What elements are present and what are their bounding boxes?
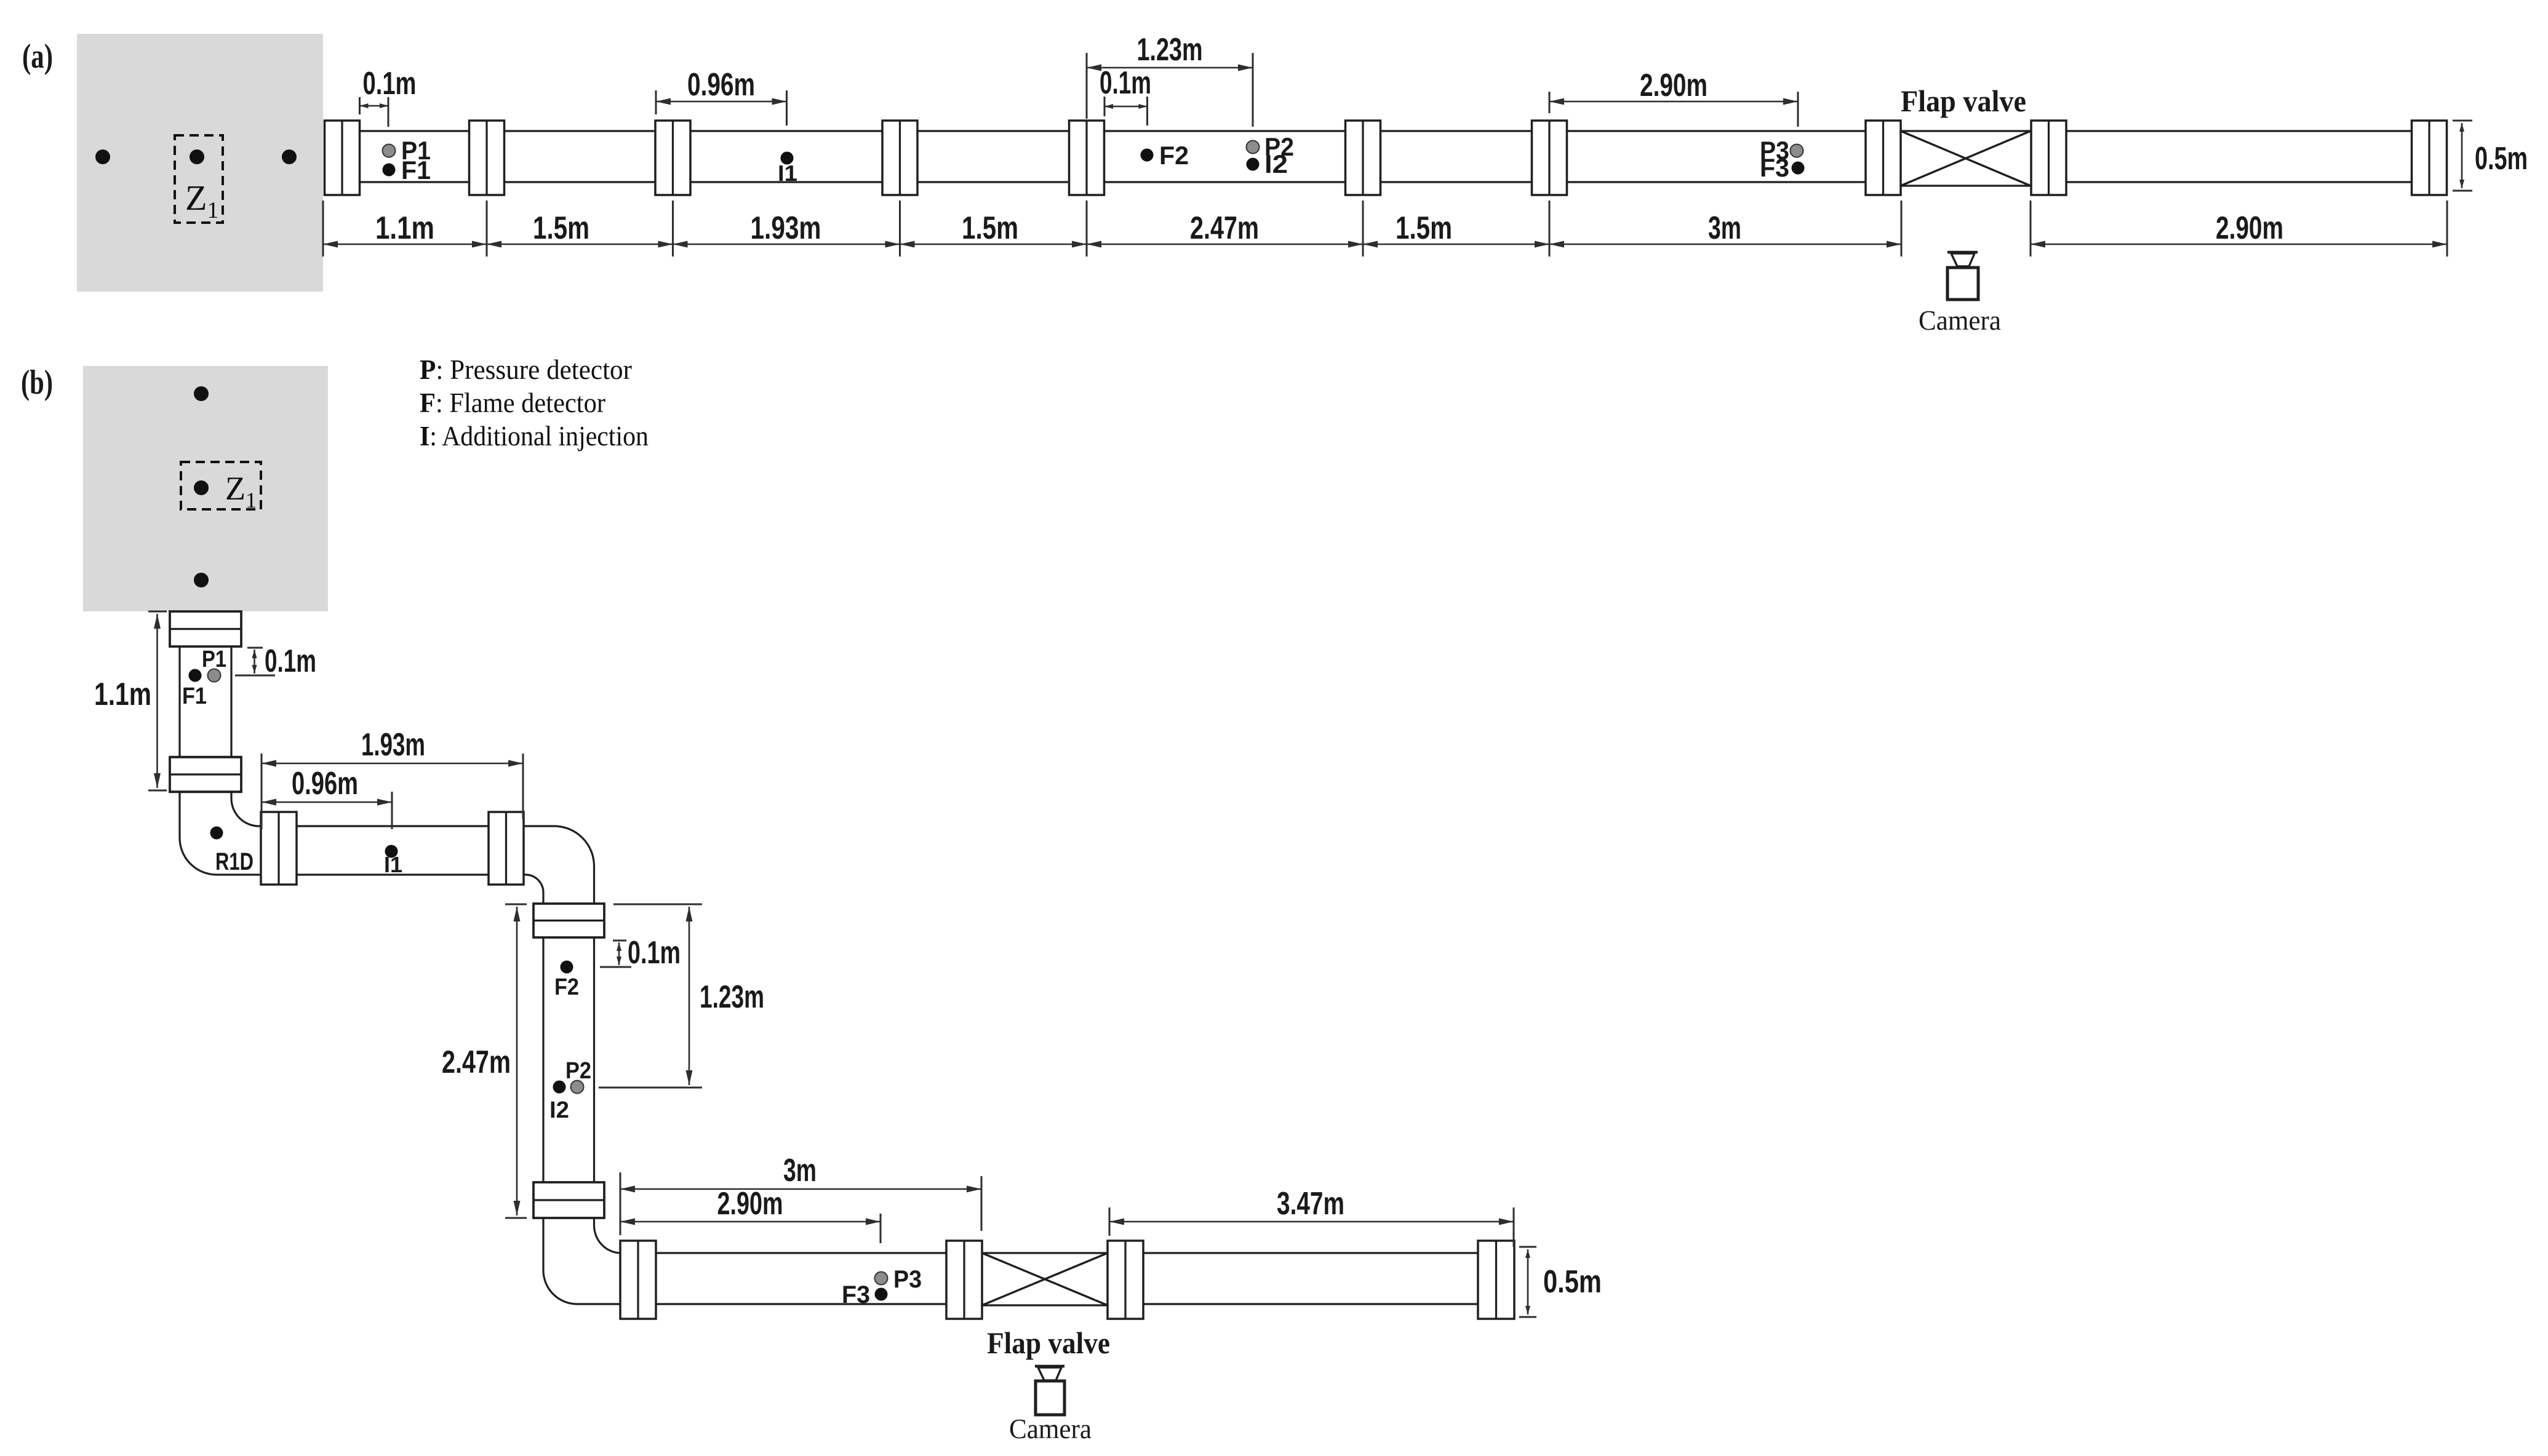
svg-text:I1: I1 — [384, 852, 402, 877]
svg-text:F: Flame detector: F: Flame detector — [420, 387, 605, 418]
svg-text:1.5m: 1.5m — [1396, 210, 1452, 246]
svg-text:Flap valve: Flap valve — [987, 1326, 1110, 1360]
svg-text:0.96m: 0.96m — [292, 766, 358, 802]
svg-text:(a): (a) — [22, 38, 53, 76]
svg-text:(b): (b) — [21, 364, 53, 402]
svg-text:1.93m: 1.93m — [361, 727, 425, 763]
svg-text:1.1m: 1.1m — [94, 677, 151, 712]
svg-text:0.1m: 0.1m — [265, 643, 316, 679]
svg-text:F1: F1 — [182, 683, 207, 709]
svg-text:0.5m: 0.5m — [2475, 141, 2528, 177]
svg-text:P2: P2 — [565, 1058, 591, 1084]
svg-text:P: Pressure detector: P: Pressure detector — [420, 354, 632, 385]
svg-text:F1: F1 — [401, 156, 431, 185]
svg-text:F3: F3 — [1760, 153, 1789, 182]
svg-text:3m: 3m — [783, 1153, 817, 1188]
svg-text:F3: F3 — [842, 1281, 870, 1308]
svg-text:Camera: Camera — [1009, 1413, 1092, 1444]
svg-text:2.90m: 2.90m — [717, 1186, 783, 1222]
svg-text:1.93m: 1.93m — [751, 210, 821, 246]
svg-text:P3: P3 — [893, 1266, 922, 1293]
svg-text:Camera: Camera — [1919, 304, 2001, 336]
svg-text:3.47m: 3.47m — [1277, 1186, 1344, 1222]
svg-text:2.47m: 2.47m — [1190, 210, 1259, 246]
svg-text:2.90m: 2.90m — [1640, 68, 1707, 103]
svg-text:1.5m: 1.5m — [962, 210, 1018, 246]
svg-text:2.90m: 2.90m — [2216, 210, 2283, 246]
svg-text:I1: I1 — [778, 161, 797, 186]
svg-text:0.1m: 0.1m — [363, 66, 417, 101]
svg-text:I: Additional injection: I: Additional injection — [420, 420, 649, 452]
svg-text:1.1m: 1.1m — [375, 210, 434, 246]
svg-text:0.96m: 0.96m — [687, 67, 755, 103]
svg-text:0.5m: 0.5m — [1543, 1264, 1602, 1300]
svg-text:R1D: R1D — [215, 848, 254, 875]
svg-text:2.47m: 2.47m — [442, 1044, 511, 1080]
svg-text:3m: 3m — [1708, 210, 1741, 246]
svg-text:F2: F2 — [1159, 141, 1189, 170]
svg-text:0.1m: 0.1m — [628, 935, 681, 971]
svg-text:I2: I2 — [1264, 149, 1288, 178]
svg-text:1.23m: 1.23m — [700, 979, 764, 1015]
svg-text:I2: I2 — [549, 1097, 569, 1123]
svg-text:F2: F2 — [554, 974, 579, 1000]
svg-text:1.5m: 1.5m — [533, 210, 589, 246]
svg-text:P1: P1 — [202, 646, 226, 672]
svg-text:Flap valve: Flap valve — [1901, 84, 2026, 118]
svg-text:1.23m: 1.23m — [1137, 32, 1203, 68]
svg-text:0.1m: 0.1m — [1100, 65, 1151, 101]
